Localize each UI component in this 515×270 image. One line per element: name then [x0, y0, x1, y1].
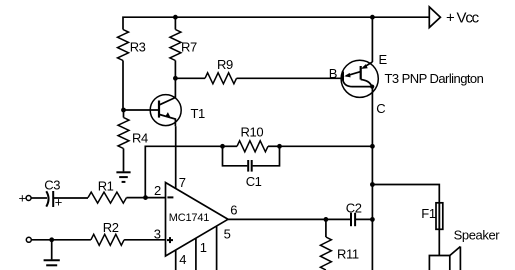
label pin 6 [230, 203, 237, 218]
ground below input 2 [44, 240, 60, 265]
wire T1 base [124, 109, 160, 111]
label C1 [246, 174, 262, 189]
node inverting input [143, 195, 148, 200]
label C3 plus mark [55, 195, 62, 210]
svg-text:R2: R2 [103, 220, 119, 235]
label C3 [44, 177, 60, 192]
svg-text:C2: C2 [346, 200, 362, 215]
wire inverting node to feedback network [145, 146, 222, 197]
wire R2 to non-inverting input [124, 239, 165, 241]
ground below R4 [116, 149, 130, 182]
wire op-amp output to C2 [228, 218, 350, 220]
label B [329, 66, 337, 81]
op-amp pin 1 line [195, 238, 197, 270]
fuse F1 [436, 203, 443, 230]
label C [376, 101, 385, 116]
svg-text:1: 1 [200, 240, 207, 255]
svg-text:C1: C1 [246, 174, 262, 189]
resistor R2 [91, 234, 124, 245]
label pin 5 [224, 227, 231, 242]
label pin 1 [200, 240, 207, 255]
op-amp pin 4 line [175, 250, 177, 270]
label pin 7 [179, 175, 186, 190]
label T1 [191, 106, 206, 121]
svg-text:R9: R9 [217, 57, 233, 72]
label R3 [130, 40, 146, 55]
label R10 [241, 125, 264, 140]
label Speaker [454, 228, 501, 243]
op-amp pin 5 line [216, 226, 218, 270]
resistor R11 [320, 219, 331, 270]
node R10-C1 right [277, 144, 282, 149]
svg-text:F1: F1 [421, 206, 436, 221]
transistor T3 PNP Darlington [341, 60, 378, 97]
svg-text:T3 PNP Darlington: T3 PNP Darlington [385, 71, 484, 86]
node collector / output branch [370, 182, 375, 187]
svg-text:R1: R1 [98, 178, 114, 193]
svg-text:2: 2 [154, 183, 161, 198]
label E [379, 52, 388, 67]
svg-text:+: + [19, 190, 26, 205]
label R1 [98, 178, 114, 193]
wire C3 to R1 [53, 197, 88, 199]
label C2 [346, 200, 362, 215]
svg-text:R3: R3 [130, 40, 146, 55]
node top rail / R7 [173, 15, 178, 20]
label R9 [217, 57, 233, 72]
label + Vcc [446, 10, 480, 27]
svg-text:4: 4 [179, 252, 186, 267]
node C2 / T3 collector [370, 217, 375, 222]
svg-text:C: C [376, 101, 385, 116]
wire R1 to inverting input [127, 197, 166, 199]
node R3 / R4 / T1 base [121, 108, 126, 113]
input terminal 1 [26, 196, 31, 201]
label pin 3 [154, 226, 161, 241]
node input 2 / ground [49, 237, 54, 242]
label F1 [421, 206, 436, 221]
label pin 2 [154, 183, 161, 198]
svg-text:3: 3 [154, 226, 161, 241]
svg-text:C3: C3 [44, 177, 60, 192]
svg-text:MC1741: MC1741 [169, 212, 209, 224]
node feedback / R10-C1 left [220, 144, 225, 149]
label T3 PNP Darlington [385, 71, 484, 86]
wire output branch to fuse and speaker [372, 185, 439, 256]
wire T3 emitter from rail [371, 17, 373, 62]
svg-text:7: 7 [179, 175, 186, 190]
resistor R10 [223, 141, 280, 152]
speaker [429, 247, 460, 270]
svg-text:R10: R10 [241, 125, 264, 140]
svg-text:6: 6 [230, 203, 237, 218]
label MC1741 [169, 212, 209, 224]
svg-text:Speaker: Speaker [454, 228, 501, 243]
svg-text:E: E [379, 52, 388, 67]
label R2 [103, 220, 119, 235]
resistor R7 [170, 17, 181, 78]
wire T3 collector rail [371, 87, 373, 270]
node R7 / R9 / T1 collector [173, 76, 178, 81]
input terminal 2 [26, 237, 31, 242]
label pin 4 [179, 252, 186, 267]
op-amp plus input mark [167, 237, 173, 243]
svg-text:5: 5 [224, 227, 231, 242]
svg-text:R11: R11 [337, 246, 359, 261]
svg-text:B: B [329, 66, 337, 81]
wire node to R9 [175, 77, 205, 79]
wire input 2 to R2 [31, 239, 91, 241]
capacitor C1 [223, 146, 280, 171]
capacitor C3 [46, 191, 53, 207]
node feedback / T3 collector [370, 144, 375, 149]
op-amp U1 MC1741 [166, 183, 229, 257]
label R4 [132, 131, 148, 146]
node top rail / T3 emitter [370, 15, 375, 20]
svg-text:R7: R7 [181, 40, 197, 55]
transistor T1 [150, 78, 181, 126]
label + input polarity [19, 190, 26, 205]
resistor R3 [118, 30, 129, 111]
op-amp minus input mark [167, 196, 173, 198]
resistor R1 [88, 192, 127, 203]
wire T1 emitter to op-amp pin 7 [175, 126, 177, 189]
wire top +Vcc rail [123, 17, 429, 29]
capacitor C2 [351, 213, 372, 226]
resistor R4 [118, 110, 129, 149]
wire input 1 to C3 [31, 197, 47, 199]
svg-text:+: + [55, 195, 62, 210]
Vcc terminal symbol [429, 7, 440, 28]
wire feedback to T3 collector [280, 145, 373, 147]
wire R9 to T3 base [237, 77, 344, 79]
node output / R11 [324, 217, 329, 222]
svg-text:R4: R4 [132, 131, 148, 146]
label R7 [181, 40, 197, 55]
svg-text:T1: T1 [191, 106, 206, 121]
svg-text:+ Vcc: + Vcc [446, 10, 480, 27]
label R11 [337, 246, 359, 261]
resistor R9 [205, 73, 237, 84]
